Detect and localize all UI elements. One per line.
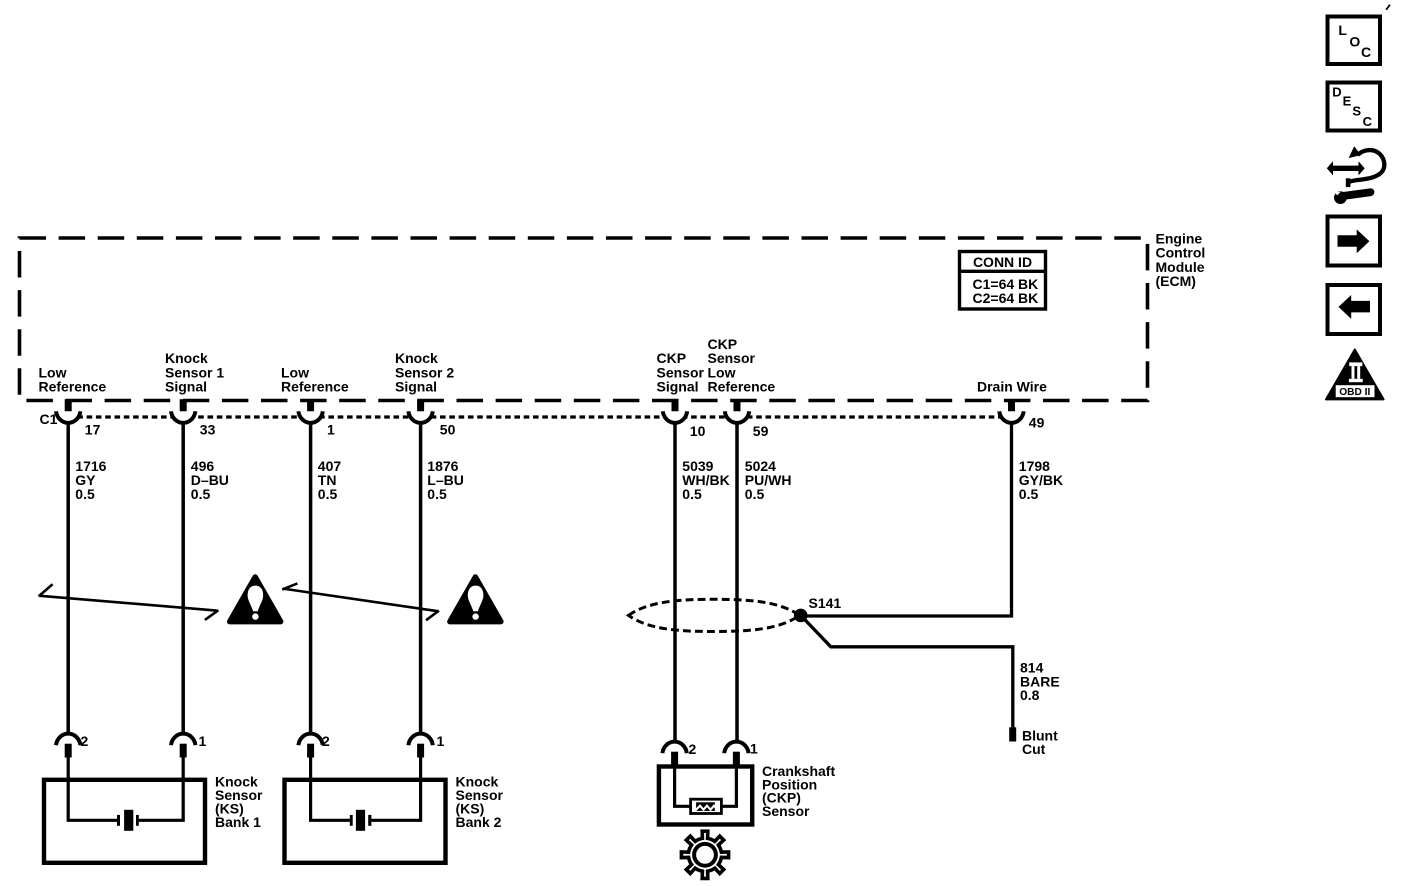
ECM dashed box xyxy=(20,238,1148,401)
svg-text:2: 2 xyxy=(689,741,697,757)
ECM pin 50 xyxy=(417,399,424,413)
svg-text:E: E xyxy=(1343,93,1352,108)
blunt cut terminal bar xyxy=(1009,727,1016,741)
knock sensor 1 lead-in wires xyxy=(68,757,183,820)
knock sensor 2 lead-in wires xyxy=(311,757,421,820)
splice S141 xyxy=(794,609,808,623)
CKP sensor lead-in wires xyxy=(675,764,737,806)
crossing arrow 1 over knock sensor 1 wires xyxy=(39,584,219,620)
knock sensor 2 pin 2 xyxy=(298,734,322,746)
svg-text:Signal: Signal xyxy=(395,379,437,395)
wire 5024 PU/WH (CKP Sensor Low Reference) xyxy=(735,422,739,744)
warning triangle 2 xyxy=(450,577,501,622)
forward arrow nav icon xyxy=(1328,217,1381,266)
crankshaft position sensor box xyxy=(659,767,752,825)
svg-text:10: 10 xyxy=(690,423,706,439)
knock sensor KS bank 1 box xyxy=(44,780,205,863)
svg-text:50: 50 xyxy=(440,422,456,438)
svg-text:C: C xyxy=(1361,44,1371,60)
svg-text:0.5: 0.5 xyxy=(75,486,95,502)
svg-text:0.5: 0.5 xyxy=(427,486,447,502)
svg-text:Reference: Reference xyxy=(39,379,107,395)
ECM pin 10 xyxy=(672,399,679,413)
svg-text:49: 49 xyxy=(1029,414,1045,430)
svg-text:1: 1 xyxy=(327,422,335,438)
svg-text:Reference: Reference xyxy=(281,379,349,395)
CKP sensor pin 2 xyxy=(662,742,686,754)
pointer/adjust icon xyxy=(1327,146,1385,204)
wire 496 D-BU (Knock Sensor 1 Signal) xyxy=(181,422,185,736)
svg-text:2: 2 xyxy=(322,733,330,749)
svg-text:O: O xyxy=(1349,33,1360,49)
svg-text:0.5: 0.5 xyxy=(318,486,338,502)
wire 5039 WH/BK (CKP Sensor Signal) xyxy=(673,422,677,744)
CKP pickup element xyxy=(691,799,722,813)
ECM pin 59 xyxy=(734,399,741,413)
svg-text:1: 1 xyxy=(437,733,445,749)
wire 1798 GY/BK drain wire xyxy=(801,422,1012,616)
svg-text:C2=64 BK: C2=64 BK xyxy=(973,290,1039,306)
OBD II icon xyxy=(1326,350,1384,400)
ECM pin 33 xyxy=(180,399,187,413)
svg-text:Bank 1: Bank 1 xyxy=(215,814,261,830)
svg-text:0.5: 0.5 xyxy=(191,486,211,502)
svg-text:33: 33 xyxy=(200,422,216,438)
ECM pin 17 xyxy=(65,399,72,413)
svg-text:2: 2 xyxy=(81,733,89,749)
svg-text:Reference: Reference xyxy=(708,379,776,395)
svg-text:D: D xyxy=(1332,85,1341,100)
wire 1876 L-BU (Knock Sensor 2 Signal) xyxy=(419,422,423,736)
LOC nav icon xyxy=(1328,17,1381,65)
svg-text:Drain Wire: Drain Wire xyxy=(977,379,1047,395)
svg-text:C: C xyxy=(1363,114,1373,129)
svg-text:Signal: Signal xyxy=(165,379,207,395)
knock sensor KS bank 2 box xyxy=(285,780,446,863)
knock sensor 2 piezo element xyxy=(350,810,372,831)
knock sensor 1 piezo element xyxy=(117,810,139,831)
svg-text:Bank 2: Bank 2 xyxy=(456,814,502,830)
svg-text:Signal: Signal xyxy=(657,379,699,395)
svg-text:CONN ID: CONN ID xyxy=(973,254,1032,270)
svg-text:0.5: 0.5 xyxy=(682,486,702,502)
back arrow nav icon xyxy=(1328,285,1381,334)
knock sensor 2 pin 1 xyxy=(408,734,432,746)
svg-text:Sensor: Sensor xyxy=(762,803,810,819)
svg-text:0.5: 0.5 xyxy=(745,486,765,502)
knock sensor 1 pin 2 xyxy=(56,734,80,746)
svg-text:0.8: 0.8 xyxy=(1020,687,1040,703)
svg-text:L: L xyxy=(1338,22,1347,38)
svg-text:S: S xyxy=(1352,104,1361,119)
tiny tick mark top right xyxy=(1386,5,1390,10)
svg-text:S141: S141 xyxy=(809,595,842,611)
svg-text:17: 17 xyxy=(85,422,101,438)
warning triangle 1 xyxy=(230,577,281,622)
svg-text:OBD II: OBD II xyxy=(1339,387,1370,398)
svg-text:(ECM): (ECM) xyxy=(1156,273,1196,289)
svg-text:Cut: Cut xyxy=(1022,741,1046,757)
CONN ID table xyxy=(958,252,1047,310)
svg-text:0.5: 0.5 xyxy=(1019,486,1039,502)
svg-text:59: 59 xyxy=(753,423,769,439)
reluctor gear icon xyxy=(681,831,728,878)
svg-text:1: 1 xyxy=(199,733,207,749)
DESC nav icon xyxy=(1328,83,1381,131)
ECM pin 1 xyxy=(307,399,314,413)
drain wire to blunt cut: 814 BARE 0.8 xyxy=(803,617,1013,727)
knock sensor 1 pin 1 xyxy=(171,734,195,746)
ECM pin 49 xyxy=(1008,399,1015,413)
crossing arrow 2 over knock sensor 2 wires xyxy=(282,583,439,620)
wire 407 TN (Low Reference) xyxy=(309,422,313,736)
svg-text:1: 1 xyxy=(750,740,758,756)
twisted pair ellipse (CKP wires) xyxy=(629,599,800,631)
wire 1716 GY (Low Reference) xyxy=(66,422,70,736)
wire ECM connector dotted tie line C1 xyxy=(68,415,1012,418)
CKP sensor pin 1 xyxy=(724,742,748,754)
